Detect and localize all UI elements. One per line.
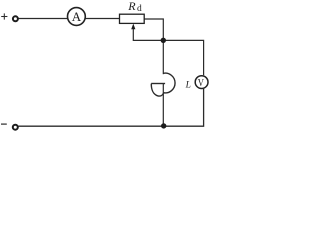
negative terminal — [13, 125, 18, 130]
voltmeter V — [195, 76, 208, 89]
svg-text:V: V — [198, 77, 204, 89]
wire: inductor bottom lead to node B — [162, 83, 164, 126]
positive terminal — [13, 16, 18, 21]
plus polarity label — [1, 13, 7, 19]
wire: ammeter to rheostat — [85, 18, 120, 20]
svg-text:L: L — [185, 81, 191, 91]
node B junction dot — [161, 123, 166, 128]
rheostat wiper arrow — [131, 24, 135, 30]
wire: node A right to voltmeter branch corner — [163, 40, 203, 75]
minus polarity label — [1, 123, 7, 125]
wire: bottom rail from node B to negative terminal — [19, 125, 164, 127]
wire: positive terminal to ammeter — [19, 18, 69, 20]
svg-text:A: A — [72, 9, 82, 24]
inductor L coil arcs — [151, 73, 175, 96]
node A junction dot — [161, 38, 166, 43]
wire: wiper lead down and right to node A — [133, 29, 163, 41]
ammeter A — [68, 8, 86, 26]
rheostat Rd body — [120, 14, 145, 23]
wire: rheostat right to top-right corner down to node A — [144, 19, 163, 40]
wire: voltmeter bottom to bottom rail — [166, 89, 204, 126]
wire: inductor top lead from node A — [162, 40, 164, 74]
